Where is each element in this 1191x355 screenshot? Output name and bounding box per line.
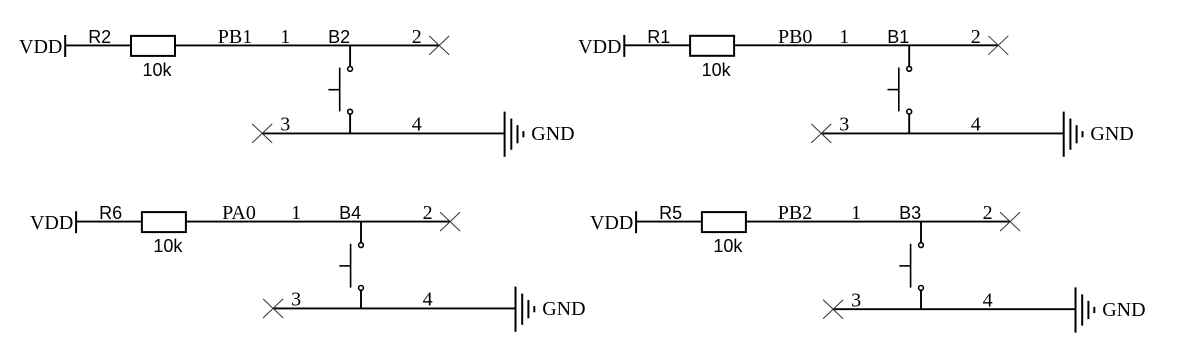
no-connect cross at pin 2 (top-right) <box>988 36 1008 55</box>
svg-text:1: 1 <box>291 202 301 224</box>
wire pin 3 to pin 4 of B3 to ground (bottom-right) <box>833 308 1075 310</box>
svg-text:GND: GND <box>1102 299 1145 321</box>
svg-text:PB1: PB1 <box>218 26 252 48</box>
resistor R6 (bottom-left) <box>99 203 186 232</box>
resistor R1 (top-right) <box>647 27 734 56</box>
svg-text:VDD: VDD <box>30 212 73 234</box>
svg-text:4: 4 <box>423 289 433 311</box>
no-connect cross at pin 3 (bottom-right) <box>823 300 843 319</box>
wire pin 3 to pin 4 of B4 to ground (bottom-left) <box>273 307 515 309</box>
svg-text:PB2: PB2 <box>778 202 812 224</box>
svg-text:R5: R5 <box>659 203 682 223</box>
wire R1 to pin 2 of B1, net PB0 (top-right) <box>734 44 998 46</box>
wire VDD to R1 (top-right) <box>624 44 690 46</box>
ground GND (bottom-right) <box>1076 287 1146 332</box>
power flag VDD (bottom-left) <box>30 211 76 234</box>
wire R2 to pin 2 of B2, net PB1 (top-left) <box>175 44 439 46</box>
svg-text:4: 4 <box>971 114 981 136</box>
svg-text:GND: GND <box>1090 123 1133 145</box>
power flag VDD (top-right) <box>578 35 624 58</box>
no-connect cross at pin 3 (top-right) <box>811 124 831 143</box>
no-connect cross at pin 3 (bottom-left) <box>263 299 283 318</box>
svg-text:R1: R1 <box>647 27 670 47</box>
svg-text:2: 2 <box>423 202 433 224</box>
no-connect cross at pin 2 (top-left) <box>429 36 449 55</box>
svg-text:10k: 10k <box>153 236 183 256</box>
svg-text:2: 2 <box>971 26 981 48</box>
pushbutton B1 (top-right) <box>888 45 912 133</box>
wire VDD to R6 (bottom-left) <box>76 221 142 223</box>
resistor R2 (top-left) <box>88 27 175 56</box>
svg-text:10k: 10k <box>713 236 743 256</box>
svg-text:R6: R6 <box>99 203 122 223</box>
svg-text:3: 3 <box>280 114 290 136</box>
svg-text:PA0: PA0 <box>222 202 256 224</box>
ground GND (top-left) <box>505 112 575 157</box>
wire pin 3 to pin 4 of B2 to ground (top-left) <box>262 132 504 134</box>
wire R6 to pin 2 of B4, net PA0 (bottom-left) <box>186 221 450 223</box>
wire VDD to R5 (bottom-right) <box>636 221 702 223</box>
svg-text:1: 1 <box>851 202 861 224</box>
svg-text:4: 4 <box>412 114 422 136</box>
svg-text:3: 3 <box>291 289 301 311</box>
svg-text:3: 3 <box>839 114 849 136</box>
pushbutton B2 (top-left) <box>328 45 352 133</box>
svg-text:10k: 10k <box>702 60 732 80</box>
no-connect cross at pin 2 (bottom-left) <box>440 212 460 231</box>
svg-text:4: 4 <box>983 290 993 312</box>
svg-text:B3: B3 <box>899 203 921 223</box>
svg-text:1: 1 <box>280 26 290 48</box>
svg-text:B4: B4 <box>339 203 361 223</box>
pushbutton B3 (bottom-right) <box>899 222 923 310</box>
resistor R5 (bottom-right) <box>659 203 746 232</box>
svg-text:3: 3 <box>851 290 861 312</box>
svg-text:PB0: PB0 <box>778 26 812 48</box>
pushbutton B4 (bottom-left) <box>339 222 363 309</box>
svg-text:R2: R2 <box>88 27 111 47</box>
svg-text:VDD: VDD <box>590 212 633 234</box>
wire pin 3 to pin 4 of B1 to ground (top-right) <box>821 132 1063 134</box>
power flag VDD (top-left) <box>19 35 65 58</box>
svg-text:VDD: VDD <box>19 36 62 58</box>
no-connect cross at pin 3 (top-left) <box>252 124 272 143</box>
svg-text:GND: GND <box>531 123 574 145</box>
power flag VDD (bottom-right) <box>590 211 636 234</box>
svg-text:B2: B2 <box>328 27 350 47</box>
svg-text:1: 1 <box>839 26 849 48</box>
ground GND (bottom-left) <box>516 287 586 332</box>
svg-text:GND: GND <box>542 298 585 320</box>
ground GND (top-right) <box>1064 112 1134 157</box>
no-connect cross at pin 2 (bottom-right) <box>1000 212 1020 231</box>
wire R5 to pin 2 of B3, net PB2 (bottom-right) <box>746 221 1010 223</box>
svg-text:2: 2 <box>412 26 422 48</box>
svg-text:B1: B1 <box>887 27 909 47</box>
svg-text:VDD: VDD <box>578 36 621 58</box>
svg-text:10k: 10k <box>142 60 172 80</box>
svg-text:2: 2 <box>983 202 993 224</box>
wire VDD to R2 (top-left) <box>65 44 131 46</box>
